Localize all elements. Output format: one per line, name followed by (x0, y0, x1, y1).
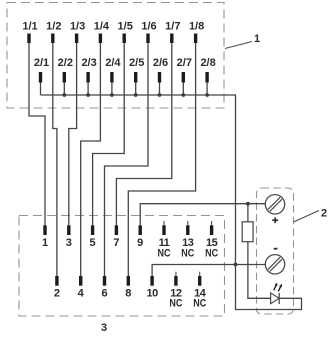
svg-text:2: 2 (54, 288, 60, 300)
svg-text:1/1: 1/1 (22, 21, 37, 33)
svg-text:NC: NC (181, 248, 194, 260)
svg-text:1/6: 1/6 (141, 21, 156, 33)
svg-text:2: 2 (321, 208, 327, 220)
svg-text:2/8: 2/8 (200, 57, 215, 69)
svg-text:3: 3 (101, 322, 107, 334)
svg-text:NC: NC (169, 298, 182, 310)
svg-text:9: 9 (137, 237, 143, 249)
svg-text:2/2: 2/2 (58, 57, 73, 69)
svg-text:1/7: 1/7 (165, 21, 180, 33)
svg-text:1/3: 1/3 (70, 21, 85, 33)
svg-text:NC: NC (205, 248, 218, 260)
svg-text:5: 5 (90, 237, 96, 249)
svg-text:2/1: 2/1 (34, 57, 49, 69)
svg-text:4: 4 (78, 288, 85, 300)
svg-text:1: 1 (254, 33, 260, 45)
svg-text:1/5: 1/5 (118, 21, 133, 33)
svg-text:1/8: 1/8 (189, 21, 204, 33)
svg-text:8: 8 (125, 288, 131, 300)
svg-text:NC: NC (158, 248, 171, 260)
svg-text:10: 10 (146, 288, 158, 300)
svg-text:2/6: 2/6 (153, 57, 168, 69)
svg-text:1: 1 (42, 237, 48, 249)
svg-text:7: 7 (113, 237, 119, 249)
svg-text:2/3: 2/3 (81, 57, 96, 69)
svg-text:6: 6 (101, 288, 107, 300)
svg-text:1/4: 1/4 (94, 21, 110, 33)
svg-text:1/2: 1/2 (46, 21, 61, 33)
svg-text:2/5: 2/5 (129, 57, 144, 69)
svg-text:3: 3 (66, 237, 72, 249)
svg-text:2/4: 2/4 (105, 57, 121, 69)
svg-text:NC: NC (193, 298, 206, 310)
svg-text:2/7: 2/7 (177, 57, 192, 69)
